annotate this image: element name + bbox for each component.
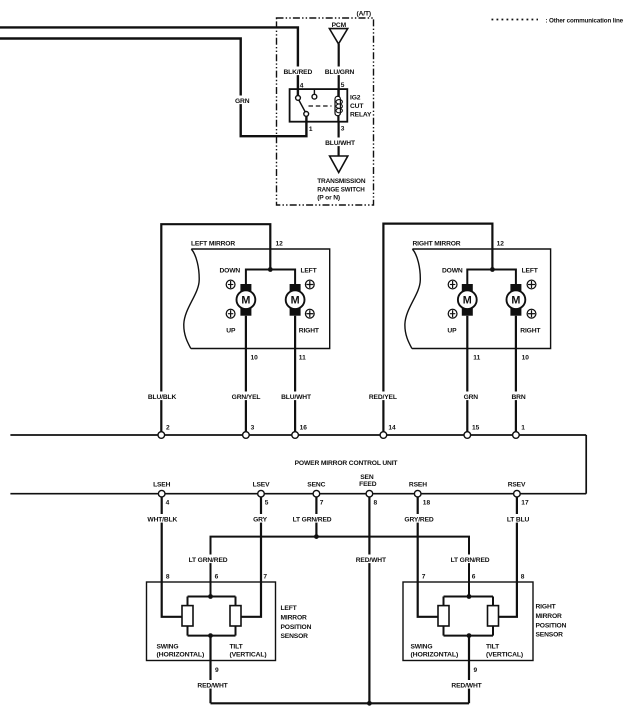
label RIGHT [299, 327, 320, 334]
svg-text:SEN: SEN [360, 474, 374, 481]
wire: common sensor return rail [211, 702, 470, 704]
svg-text:3: 3 [341, 126, 345, 133]
wire LT BLU: control unit 17 to right sensor pin 8 [499, 497, 517, 617]
label LT BLU [506, 514, 531, 524]
label LT GRN/RED (SENC) [293, 514, 332, 524]
pin 5 (relay) [341, 82, 345, 89]
svg-text:7: 7 [320, 500, 324, 507]
svg-text:TRANSMISSION: TRANSMISSION [317, 178, 366, 185]
label LT GRN/RED (left sensor pin 6) [188, 555, 228, 565]
relay middle contact circle [312, 94, 317, 99]
svg-text:UP: UP [447, 327, 457, 334]
relay pin 4 contact circle [296, 96, 301, 101]
label BLU/BLK [148, 392, 177, 402]
svg-text:RIGHT MIRROR: RIGHT MIRROR [413, 241, 461, 248]
label RED/WHT (right sensor return) [451, 680, 483, 690]
wire: right sensor top rail [444, 597, 494, 606]
terminal 15 (control unit top) [464, 424, 480, 438]
pin 11 (right mirror) [473, 354, 480, 361]
svg-text:TILT: TILT [486, 643, 500, 650]
svg-text:(HORIZONTAL): (HORIZONTAL) [157, 651, 205, 658]
wire: left sensor bottom rail [188, 626, 236, 636]
net LSEH / terminal 4 (control unit bottom) [153, 482, 171, 507]
svg-text:8: 8 [521, 574, 525, 581]
pin 4 (relay) [300, 83, 304, 90]
svg-text:6: 6 [215, 574, 219, 581]
wire RED/WHT: control unit 8 (SEN FEED) down to sensor return rail [368, 497, 370, 703]
svg-text:IG2: IG2 [350, 95, 361, 102]
pin 8 (left sensor) [166, 574, 170, 581]
power mirror control unit: bottom edge bus [10, 493, 586, 495]
label BLK/RED [283, 67, 312, 77]
pin 1 (relay) [309, 126, 313, 133]
svg-text:GRN/YEL: GRN/YEL [232, 394, 261, 401]
relay pin 1 contact circle [304, 112, 309, 117]
svg-text:5: 5 [341, 82, 345, 89]
svg-text:BLU/GRN: BLU/GRN [325, 69, 355, 76]
label SWING (HORIZONTAL) right sensor [411, 643, 459, 658]
potentiometer: left sensor tilt (vertical) [230, 606, 241, 626]
potentiometer: right sensor swing (horizontal) [438, 606, 449, 626]
label LT GRN/RED (right sensor pin 6) [450, 555, 490, 565]
svg-text:RANGE SWITCH: RANGE SWITCH [317, 187, 365, 194]
relay switch arm [299, 100, 305, 112]
terminal 16 (control unit top) [292, 424, 307, 438]
label BLU/WHT (left mirror) [281, 392, 312, 402]
svg-text:WHT/BLK: WHT/BLK [147, 517, 177, 524]
wire: left mirror feed, pin 2 up and over to mirror pin 12 [161, 224, 270, 435]
net SEN FEED / terminal 8 (control unit bottom) [359, 474, 377, 507]
node: right sensor top rail junction [467, 594, 472, 599]
pin 10 (left mirror) [251, 354, 259, 361]
svg-text:9: 9 [215, 667, 219, 674]
label BRN [510, 392, 528, 402]
svg-text:UP: UP [226, 327, 236, 334]
pin 12 (right mirror) [497, 241, 505, 248]
svg-text:7: 7 [263, 574, 267, 581]
symbol circled-plus lower-right (right mirror) [527, 309, 536, 318]
svg-text:BLU/WHT: BLU/WHT [325, 140, 356, 147]
label UP [226, 327, 236, 334]
node: right sensor bottom rail junction [467, 633, 472, 638]
symbol circled-plus upper-right (right mirror) [527, 280, 536, 289]
wire GRN: second feed line to relay pin 1 [0, 39, 306, 137]
wire: left mirror motor M1 to pin 10 / control unit pin 3 [245, 316, 247, 435]
PCM connector triangle [329, 29, 347, 44]
label POWER MIRROR CONTROL UNIT [295, 460, 399, 467]
svg-text:11: 11 [473, 354, 480, 361]
svg-text:GRY/RED: GRY/RED [404, 517, 433, 524]
wire: branch to both left-mirror motors [246, 270, 295, 286]
wire: right sensor pin 9 return [468, 636, 470, 704]
svg-text:LSEV: LSEV [253, 482, 271, 489]
label TRANSMISSION RANGE SWITCH (P or N) [317, 178, 366, 202]
label LEFT MIRROR [191, 241, 235, 248]
wire GRY/RED: control unit 18 to right sensor pin 7 [418, 497, 438, 617]
terminal 1 (control unit top) [513, 424, 526, 438]
label TILT (VERTICAL) [230, 643, 267, 658]
node: left sensor top rail junction [208, 594, 213, 599]
wire: left sensor pin 9 return [209, 636, 211, 704]
pin 11 (left mirror) [299, 354, 306, 361]
svg-text:18: 18 [423, 500, 431, 507]
svg-text:LT GRN/RED: LT GRN/RED [189, 557, 228, 564]
svg-text:RED/WHT: RED/WHT [451, 683, 482, 690]
svg-text:SENC: SENC [307, 482, 325, 489]
wire: SENC horizontal distribution to both sensors [211, 537, 470, 597]
svg-text:SENSOR: SENSOR [536, 632, 564, 639]
label LEFT [300, 268, 317, 275]
symbol circled-plus upper-left (right mirror) [448, 280, 457, 289]
net RSEV / terminal 17 (control unit bottom) [508, 482, 529, 507]
svg-text:POSITION: POSITION [281, 624, 312, 631]
wire BLU/WHT: relay pin 3 to transmission range switch [338, 122, 340, 156]
pin 3 (relay) [341, 126, 345, 133]
legend: other communication line (dotted sample) [492, 19, 539, 21]
motor M2: left mirror left/right motor [286, 284, 305, 316]
svg-text:RIGHT: RIGHT [536, 604, 557, 611]
motor M4: right mirror left/right motor [507, 284, 526, 316]
svg-text:8: 8 [166, 574, 170, 581]
potentiometer: right sensor tilt (vertical) [488, 606, 499, 626]
svg-text:LEFT MIRROR: LEFT MIRROR [191, 241, 235, 248]
power mirror control unit: top edge bus [10, 434, 586, 436]
svg-text:2: 2 [166, 424, 170, 431]
svg-text:5: 5 [265, 500, 269, 507]
svg-text:RIGHT: RIGHT [299, 327, 320, 334]
svg-text:LT GRN/RED: LT GRN/RED [293, 517, 332, 524]
label BLU/GRN [324, 67, 355, 77]
svg-text:SWING: SWING [411, 643, 433, 650]
wire: right mirror motor M3 to pin 11 / control unit pin 15 [466, 316, 468, 435]
wire WHT/BLK: control unit 4 to left sensor pin 8 [162, 497, 182, 617]
node: SENC distribution junction [314, 534, 319, 539]
label LEFT MIRROR POSITION SENSOR [281, 605, 312, 640]
relay actuation dashed link [309, 105, 332, 107]
svg-text:M: M [241, 295, 250, 307]
wire: branch to both right-mirror motors [467, 270, 516, 286]
svg-text:8: 8 [374, 500, 378, 507]
motor M3: right mirror up/down motor [458, 284, 477, 316]
svg-text:12: 12 [276, 241, 284, 248]
node: left mirror pin 12 junction [268, 267, 273, 272]
label BLU/WHT [324, 138, 356, 148]
svg-text:RSEH: RSEH [409, 482, 427, 489]
symbol circled-plus upper-left [226, 280, 235, 289]
label RED/WHT (left sensor return) [197, 680, 229, 690]
label GRN/YEL [232, 392, 261, 402]
svg-text:11: 11 [299, 354, 306, 361]
label RED/WHT (SEN FEED) [355, 555, 387, 565]
svg-text:(VERTICAL): (VERTICAL) [230, 651, 267, 658]
svg-text:RSEV: RSEV [508, 482, 526, 489]
net SENC / terminal 7 (control unit bottom) [307, 482, 325, 507]
left mirror position sensor box [147, 582, 276, 661]
svg-text:: Other communication line: : Other communication line [546, 17, 624, 24]
svg-text:POSITION: POSITION [536, 622, 567, 629]
net RSEH / terminal 18 (control unit bottom) [409, 482, 431, 507]
svg-text:15: 15 [472, 424, 480, 431]
wire: top feed line to BLK/RED (horizontal) [0, 27, 298, 96]
label RIGHT MIRROR POSITION SENSOR [536, 604, 567, 639]
label GRY [252, 514, 269, 524]
pin 6 (left sensor) [215, 574, 219, 581]
wire: right sensor bottom rail [444, 626, 494, 636]
label DOWN (right mirror) [442, 268, 463, 275]
svg-text:DOWN: DOWN [442, 268, 463, 275]
svg-text:GRY: GRY [253, 517, 267, 524]
pin 12 (left mirror) [276, 241, 284, 248]
label LEFT (right mirror) [522, 268, 539, 275]
wire: right mirror motor M4 to pin 10 / control unit pin 1 [515, 316, 517, 435]
label TILT (VERTICAL) right sensor [486, 643, 523, 658]
svg-text:10: 10 [251, 354, 259, 361]
svg-text:9: 9 [474, 667, 478, 674]
symbol circled-plus lower-left [226, 309, 235, 318]
svg-text:POWER MIRROR CONTROL UNIT: POWER MIRROR CONTROL UNIT [295, 460, 399, 467]
right mirror position sensor box [403, 582, 533, 661]
svg-text:SWING: SWING [157, 643, 179, 650]
power mirror control unit: right edge [585, 435, 587, 494]
symbol circled-plus upper-right [305, 280, 314, 289]
svg-text:BLU/BLK: BLU/BLK [148, 394, 177, 401]
svg-text:BLU/WHT: BLU/WHT [281, 394, 312, 401]
legend text [546, 17, 624, 24]
pin 9 (right sensor) [474, 667, 478, 674]
left mirror housing box with wavy left edge [184, 249, 330, 349]
node: right mirror pin 12 junction [490, 267, 495, 272]
svg-text:SENSOR: SENSOR [281, 633, 309, 640]
svg-text:LEFT: LEFT [281, 605, 298, 612]
relay middle contact stub [313, 89, 315, 94]
wire GRY: control unit 5 to left sensor pin 7 [241, 497, 261, 617]
svg-text:1: 1 [521, 424, 525, 431]
wire: left sensor top rail [188, 597, 236, 606]
svg-text:GRN: GRN [464, 394, 479, 401]
pin 10 (right mirror) [522, 354, 530, 361]
label GRN [233, 96, 252, 106]
svg-text:TILT: TILT [230, 643, 244, 650]
motor M1: left mirror up/down motor [237, 284, 256, 316]
wire LT GRN/RED: control unit 7 (SENC) down to distribution node [315, 497, 317, 537]
node: return rail / SEN FEED junction [367, 701, 372, 706]
svg-text:RELAY: RELAY [350, 112, 372, 119]
svg-text:16: 16 [300, 424, 308, 431]
wire: right mirror feed, pin 14 up and over to mirror pin 12 [383, 224, 492, 435]
transmission range switch connector triangle [330, 156, 348, 173]
pin 7 (right sensor) [422, 574, 426, 581]
terminal 14 (control unit top) [380, 424, 396, 438]
svg-text:M: M [511, 295, 520, 307]
svg-text:RED/WHT: RED/WHT [197, 683, 228, 690]
svg-text:FEED: FEED [359, 481, 377, 488]
svg-text:LEFT: LEFT [522, 268, 539, 275]
svg-text:PCM: PCM [332, 22, 347, 29]
node: left sensor bottom rail junction [208, 633, 213, 638]
wire BLU/GRN: PCM to relay pin 5 [338, 44, 340, 97]
label IG2 CUT RELAY [350, 95, 372, 119]
svg-text:4: 4 [166, 500, 170, 507]
svg-text:LT BLU: LT BLU [507, 517, 530, 524]
potentiometer: left sensor swing (horizontal) [182, 606, 193, 626]
label RIGHT MIRROR [413, 241, 461, 248]
net LSEV / terminal 5 (control unit bottom) [253, 482, 271, 507]
svg-text:(VERTICAL): (VERTICAL) [486, 651, 523, 658]
label WHT/BLK [147, 514, 178, 524]
symbol circled-plus lower-right [305, 309, 314, 318]
svg-text:RED/WHT: RED/WHT [356, 557, 387, 564]
svg-text:BLK/RED: BLK/RED [283, 69, 312, 76]
pin 7 (left sensor) [263, 574, 267, 581]
pin 6 (right sensor) [472, 574, 476, 581]
svg-text:6: 6 [472, 574, 476, 581]
terminal 2 (control unit top) [158, 424, 170, 438]
relay IG2 CUT RELAY box [290, 89, 348, 122]
svg-text:M: M [463, 295, 472, 307]
wire: left mirror motor M2 to pin 11 / control unit pin 16 [294, 316, 296, 435]
label RED/YEL [368, 392, 398, 402]
svg-text:LT GRN/RED: LT GRN/RED [451, 557, 490, 564]
svg-text:10: 10 [522, 354, 530, 361]
svg-text:17: 17 [521, 500, 529, 507]
symbol circled-plus lower-left (right mirror) [448, 309, 457, 318]
label UP (right mirror) [447, 327, 457, 334]
svg-text:MIRROR: MIRROR [536, 613, 563, 620]
svg-text:7: 7 [422, 574, 426, 581]
label (A/T) [357, 11, 371, 18]
svg-text:12: 12 [497, 241, 505, 248]
svg-text:LSEH: LSEH [153, 482, 171, 489]
svg-text:BRN: BRN [511, 394, 525, 401]
right mirror housing box with wavy left edge [405, 249, 551, 349]
svg-text:RED/YEL: RED/YEL [369, 394, 397, 401]
svg-text:(P or N): (P or N) [317, 195, 340, 202]
svg-text:(A/T): (A/T) [357, 11, 371, 18]
PCM connector label [332, 22, 347, 29]
svg-text:GRN: GRN [235, 98, 250, 105]
pin 8 (right sensor) [521, 574, 525, 581]
label GRN (right mirror) [462, 392, 481, 402]
A/T dash-dot boundary box [277, 18, 374, 205]
svg-text:MIRROR: MIRROR [281, 614, 308, 621]
label RIGHT (right mirror) [520, 327, 541, 334]
svg-text:RIGHT: RIGHT [520, 327, 541, 334]
svg-text:DOWN: DOWN [220, 268, 241, 275]
svg-text:CUT: CUT [350, 103, 364, 110]
svg-text:3: 3 [251, 424, 255, 431]
pin 9 (left sensor) [215, 667, 219, 674]
label GRY/RED [403, 514, 434, 524]
svg-text:14: 14 [388, 424, 396, 431]
svg-text:M: M [291, 295, 300, 307]
label SWING (HORIZONTAL) [157, 643, 205, 658]
relay coil [335, 89, 342, 122]
svg-text:LEFT: LEFT [300, 268, 317, 275]
terminal 3 (control unit top) [243, 424, 255, 438]
svg-text:1: 1 [309, 126, 313, 133]
label DOWN [220, 268, 241, 275]
svg-text:(HORIZONTAL): (HORIZONTAL) [411, 651, 459, 658]
